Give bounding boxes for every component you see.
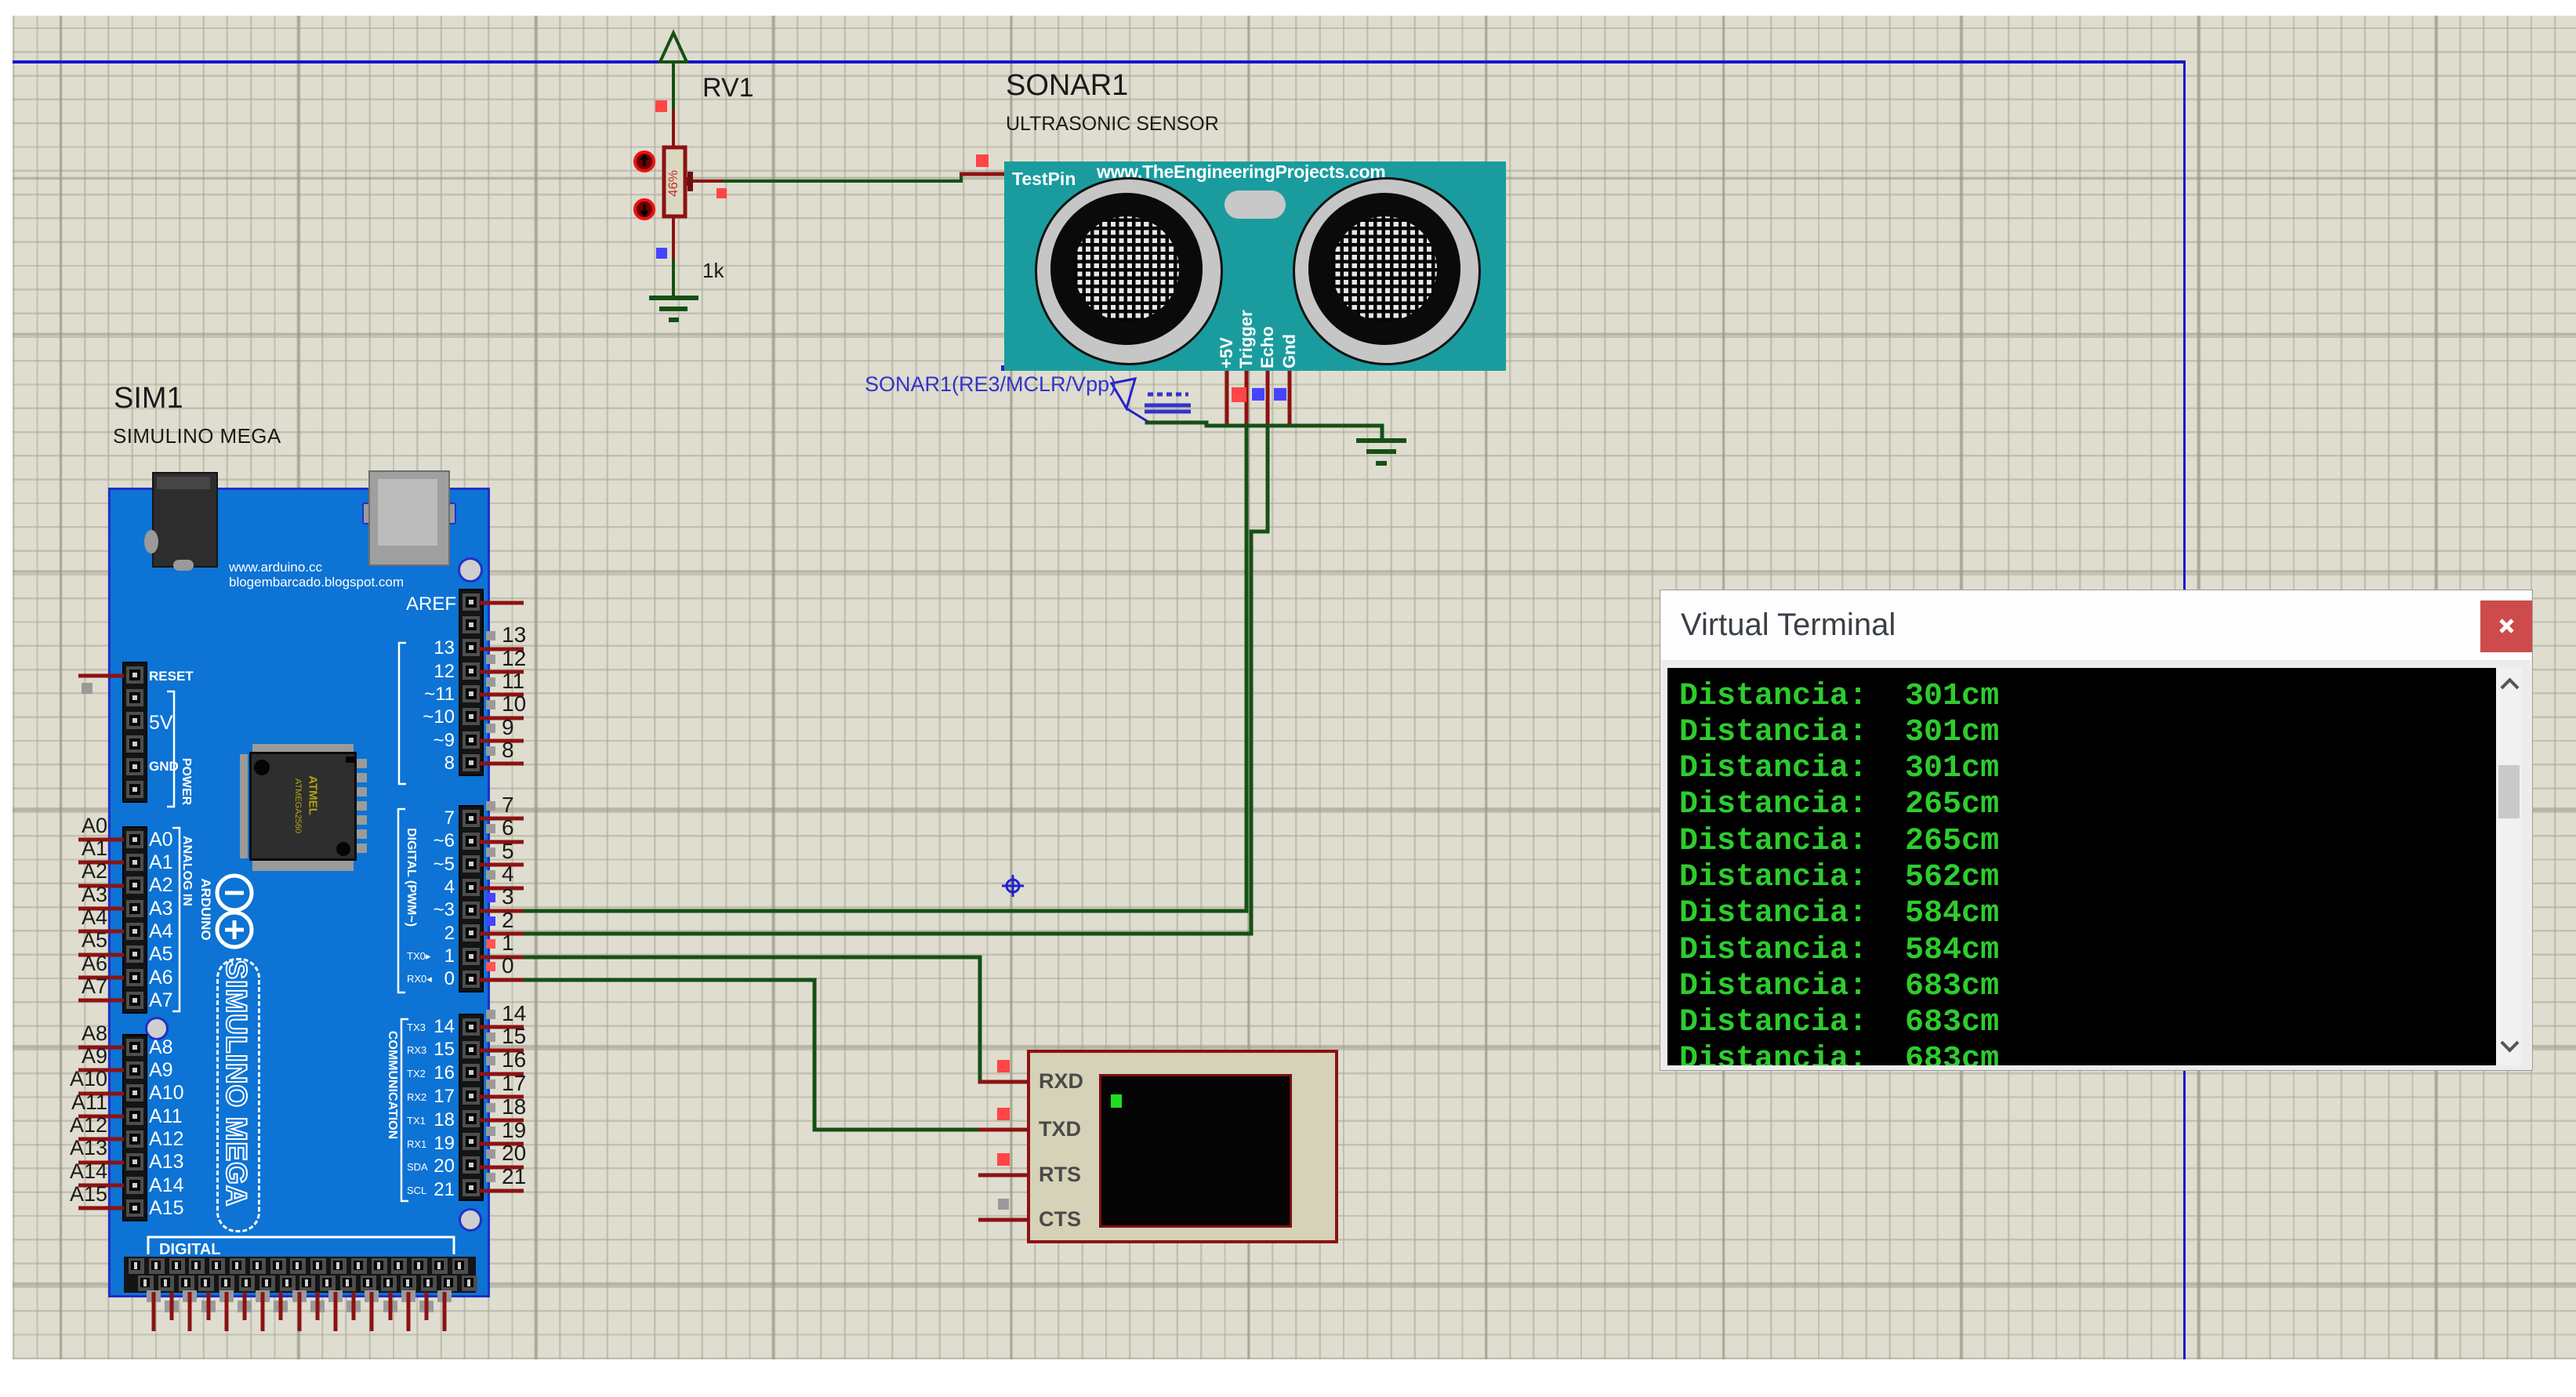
SIM1 pin label A9 xyxy=(149,1059,173,1082)
pin stub digital 6 xyxy=(479,840,524,844)
external label 12 xyxy=(502,646,526,671)
ultrasonic sensor SONAR1 body xyxy=(1004,161,1506,371)
terminal cursor block xyxy=(1111,1094,1122,1108)
SIM1 section label ARDUINO xyxy=(198,792,213,1027)
pin stub digital 11 xyxy=(479,693,524,697)
pin stub SONAR1 TestPin xyxy=(960,172,1005,176)
SIM1 pin label ~11 xyxy=(361,684,455,706)
wire: +5V/Gnd rail to ground (node) xyxy=(1147,420,1382,439)
net square for pin 2 xyxy=(486,916,495,926)
SONAR1 right transducer xyxy=(1293,177,1481,365)
external label 9 xyxy=(502,715,514,740)
SIM1 pin label A4 xyxy=(149,920,173,943)
SIM1 header AREF/13-8 xyxy=(459,589,484,776)
RV1 reference label xyxy=(702,73,754,103)
pin stub digital 18 xyxy=(479,1119,524,1123)
pin stub digital 19 xyxy=(479,1142,524,1146)
pin stub SONAR1 Gnd xyxy=(1288,370,1292,426)
external label A12 xyxy=(47,1113,107,1138)
terminal pin label RXD xyxy=(1039,1069,1083,1094)
SIM1 pin label 12 xyxy=(361,661,455,683)
SIM1 pin label ~10 xyxy=(361,706,455,728)
SIM1 pin label 4 xyxy=(361,876,455,898)
pin stub digital 13 xyxy=(479,648,524,651)
SIM1 header A8-A15 xyxy=(122,1034,147,1221)
pin stub A0 xyxy=(78,838,124,842)
probe dashes xyxy=(1145,394,1191,412)
external label 8 xyxy=(502,738,514,763)
external label 7 xyxy=(502,793,514,818)
net square for pin 18 xyxy=(486,1103,495,1112)
SIM1 silk text arduino.cc xyxy=(229,560,322,575)
SIM1 pin label TX1 18 xyxy=(407,1115,426,1127)
net square for pin 15 xyxy=(486,1032,495,1042)
SIM1 RESET label xyxy=(149,669,194,684)
SONAR1 reference label xyxy=(1006,69,1128,103)
SIM1 section label ANALOG IN xyxy=(180,753,194,989)
pin stub digital 21 xyxy=(479,1189,524,1193)
pin stub A8 xyxy=(78,1046,124,1050)
close button xyxy=(2480,601,2532,652)
pin stub A15 xyxy=(78,1206,124,1210)
SIM1 pin label RX3 15 xyxy=(407,1044,426,1056)
external label 20 xyxy=(502,1141,526,1166)
sheet border right xyxy=(2183,60,2186,1359)
net square for pin 12 xyxy=(486,655,495,664)
Virtual Terminal popup window xyxy=(1660,590,2533,1071)
external label 3 xyxy=(502,884,514,909)
SIM1 pin label ~9 xyxy=(361,730,455,752)
SIM1 reference label xyxy=(114,382,183,415)
SIM1 pin label TX0 1 xyxy=(407,950,430,963)
pin stub terminal TXD xyxy=(978,1128,1029,1132)
external label 2 xyxy=(502,908,514,933)
net square for pin 3 xyxy=(486,893,495,902)
SIM1 pin label A10 xyxy=(149,1082,183,1105)
wire: SONAR1 Trigger to SIM1 pin 3 xyxy=(524,427,1246,911)
SIM1 section label POWER xyxy=(179,664,193,899)
wiper arrow of RV1 xyxy=(688,172,693,191)
wire: RV1 bottom to ground xyxy=(672,259,675,296)
net square for pin 6 xyxy=(486,824,495,833)
external label 13 xyxy=(502,622,526,648)
SIM1 mounting hole top right xyxy=(458,557,483,582)
terminal pin label TXD xyxy=(1039,1117,1081,1141)
pin stub A2 xyxy=(78,884,124,888)
pin stub A6 xyxy=(78,976,124,980)
microcontroller board SIM1 (SIMULINO MEGA) xyxy=(108,488,490,1297)
net square for pin 0 xyxy=(486,962,495,971)
net square for pin 4 xyxy=(486,870,495,880)
pin stub digital 15 xyxy=(479,1049,524,1053)
external label A11 xyxy=(47,1090,107,1115)
SIM1 pin label A15 xyxy=(149,1197,183,1220)
SIM1 pin label SDA 20 xyxy=(407,1161,428,1173)
external label A14 xyxy=(47,1159,107,1184)
pin stub digital 12 xyxy=(479,670,524,674)
net square for pin 1 xyxy=(486,939,495,949)
pin stub A1 xyxy=(78,861,124,865)
SONAR1 TestPin label xyxy=(1012,169,1076,190)
net square for pin 17 xyxy=(486,1079,495,1089)
external label 15 xyxy=(502,1024,526,1049)
pin stub digital 7 xyxy=(479,817,524,821)
pin stub digital 17 xyxy=(479,1095,524,1099)
sheet border top xyxy=(13,60,2186,63)
net label SONAR1(RE3/MCLR/Vpp) xyxy=(865,372,1116,397)
pin stub RV1 pin3 (bottom) xyxy=(672,218,675,259)
SIM1 mounting hole bottom right xyxy=(459,1208,482,1232)
logic state square Gnd xyxy=(1274,388,1286,401)
SIM1 pin label A3 xyxy=(149,898,173,920)
SONAR1 pin label +5V xyxy=(1217,337,1236,368)
pin stub RESET xyxy=(78,674,124,678)
logic state square RV1 wiper xyxy=(717,188,727,198)
pin stub digital 10 xyxy=(479,717,524,720)
pin stub digital 4 xyxy=(479,887,524,891)
pin stub A7 xyxy=(78,999,124,1003)
pin stub A14 xyxy=(78,1184,124,1188)
external label A6 xyxy=(47,952,107,976)
pin stub digital 14 xyxy=(479,1025,524,1029)
SONAR1 value label xyxy=(1006,113,1219,136)
SIM1 pin label TX3 14 xyxy=(407,1021,426,1033)
pin stub A13 xyxy=(78,1161,124,1165)
virtual terminal schematic part body xyxy=(1027,1050,1338,1243)
SIM1 pin label TX2 16 xyxy=(407,1068,426,1079)
wire: SIM1 pin 0 (RXD) to terminal TXD xyxy=(524,980,1027,1130)
pin stub digital 16 xyxy=(479,1072,524,1076)
external label A1 xyxy=(47,836,107,861)
SIM1 section label COMMUNICATION xyxy=(385,967,399,1203)
SIM1 pin label 8 xyxy=(361,753,455,775)
pin stub digital 2 xyxy=(479,932,524,936)
external label 6 xyxy=(502,815,514,840)
pin stub digital 5 xyxy=(479,863,524,867)
origin marker (crosshair) xyxy=(1002,875,1024,897)
SIM1 pin label A7 xyxy=(149,989,173,1012)
SIM1 pin label A5 xyxy=(149,943,173,966)
SIM1 SIMULINO MEGA silk xyxy=(216,958,260,1232)
external label A10 xyxy=(47,1067,107,1091)
SIM1 pin label 2 xyxy=(361,923,455,945)
SIM1 AREF label xyxy=(386,593,456,615)
SONAR1 oscillator capsule xyxy=(1225,190,1286,219)
external label 17 xyxy=(502,1071,526,1096)
SIM1 pin label A11 xyxy=(149,1105,183,1128)
logic state square RV1 pin1 xyxy=(655,100,667,112)
external label 5 xyxy=(502,839,514,864)
external label A5 xyxy=(47,928,107,952)
external label A2 xyxy=(47,859,107,884)
pin stub digital 20 xyxy=(479,1166,524,1170)
SIM1 pin label RX2 17 xyxy=(407,1091,426,1103)
external label 18 xyxy=(502,1094,526,1119)
SIM1 pin label RX0 0 xyxy=(407,973,432,985)
logic state square TestPin xyxy=(976,154,989,167)
RV1 value label 1k xyxy=(702,259,724,283)
net square for pin 16 xyxy=(486,1056,495,1065)
pin stub A10 xyxy=(78,1092,124,1096)
SONAR1 pin label Trigger xyxy=(1237,310,1256,368)
SIM1 pin label ~5 xyxy=(361,854,455,876)
SIM1 pin label A0 xyxy=(149,829,173,851)
logic state square Trigger xyxy=(1232,387,1246,402)
SIM1 header POWER xyxy=(122,662,147,803)
external label A9 xyxy=(47,1044,107,1069)
SIM1 pin label A2 xyxy=(149,874,173,897)
pin stub terminal CTS xyxy=(978,1218,1029,1222)
SIM1 pin label A1 xyxy=(149,851,173,874)
pin stub A4 xyxy=(78,930,124,934)
net square for pin 21 xyxy=(486,1173,495,1182)
net square RESET xyxy=(82,683,93,694)
net square for pin 13 xyxy=(486,631,495,640)
terminal pin label CTS xyxy=(1039,1207,1081,1232)
SIM1 mounting hole mid left xyxy=(145,1017,169,1040)
SIM1 pin label A12 xyxy=(149,1128,183,1151)
external label 10 xyxy=(502,691,526,717)
SONAR1 pin label Gnd xyxy=(1280,334,1299,368)
RV1 decrement arrow button xyxy=(635,200,654,219)
net square for pin 7 xyxy=(486,801,495,811)
pin stub AREF xyxy=(479,601,524,605)
SIM1 pin label A14 xyxy=(149,1174,183,1197)
external label 11 xyxy=(502,669,524,694)
pin stub RV1 wiper xyxy=(693,180,723,183)
external label 1 xyxy=(502,931,514,956)
logic square terminal TXD xyxy=(997,1108,1010,1120)
external label A3 xyxy=(47,883,107,907)
pin stub digital 3 xyxy=(479,909,524,913)
net square for pin 9 xyxy=(486,724,495,733)
net square for pin 10 xyxy=(486,700,495,709)
external label 4 xyxy=(502,862,514,887)
pin stub RV1 pin1 xyxy=(672,109,675,147)
SIM1 USB connector xyxy=(362,503,375,524)
pin stub A5 xyxy=(78,953,124,957)
voltage probe SONAR1(RE3/MCLR/Vpp) xyxy=(1112,379,1147,421)
pin stub SONAR1 +5V xyxy=(1225,370,1229,426)
pin stub A9 xyxy=(78,1069,124,1072)
SIM1 section label DIGITAL (PWM~) xyxy=(404,760,418,995)
terminal pin label RTS xyxy=(1039,1163,1081,1187)
pin stub terminal RXD xyxy=(978,1080,1029,1084)
SIM1 pin label SCL 21 xyxy=(407,1185,426,1196)
SONAR1 website label xyxy=(1097,161,1385,183)
window title xyxy=(1681,608,1896,643)
external label A7 xyxy=(47,974,107,999)
SIM1 pin label A8 xyxy=(149,1036,173,1059)
pin stub digital 1 xyxy=(479,956,524,960)
logic square terminal RTS xyxy=(997,1153,1010,1166)
pin stub SONAR1 Echo xyxy=(1266,370,1270,427)
external label 21 xyxy=(502,1164,526,1189)
logic state square RV1 pin3 xyxy=(656,248,667,259)
potentiometer RV1 body xyxy=(664,147,685,216)
external label A13 xyxy=(47,1136,107,1160)
external label A15 xyxy=(47,1182,107,1206)
SIM1 pin label 7 xyxy=(361,807,455,829)
blue tape mark under SONAR1 xyxy=(1001,365,1054,371)
pin stub digital 0 xyxy=(479,978,524,982)
wire: SIM1 pin 1 (TXD) to terminal RXD xyxy=(524,957,1027,1082)
SIM1 DC power jack xyxy=(152,472,218,568)
SIM1 pin label 13 xyxy=(361,637,455,659)
pin stub terminal RTS xyxy=(978,1174,1029,1177)
scrollbar xyxy=(2496,668,2522,1065)
logic square terminal CTS xyxy=(998,1199,1009,1210)
pin stub A3 xyxy=(78,907,124,911)
net square for pin 20 xyxy=(486,1149,495,1159)
wire: power arrow to RV1 top xyxy=(672,62,675,109)
external label 16 xyxy=(502,1047,526,1072)
SONAR1 left transducer xyxy=(1035,177,1223,365)
external label 19 xyxy=(502,1118,526,1143)
SIM1 bottom digital header xyxy=(124,1257,476,1293)
virtual terminal screen xyxy=(1099,1074,1292,1228)
SIM1 header A0-A7 xyxy=(122,826,147,1014)
pin stub digital 8 xyxy=(479,762,524,766)
external label A0 xyxy=(47,814,107,838)
external label A4 xyxy=(47,905,107,930)
power symbol (up arrow) feeding RV1 xyxy=(660,33,687,62)
RV1 increment arrow button xyxy=(635,152,654,171)
net square for pin 14 xyxy=(486,1010,495,1019)
pin stub digital 9 xyxy=(479,739,524,743)
SONAR1 pin label Echo xyxy=(1258,326,1277,368)
SIM1 pin label A6 xyxy=(149,967,173,989)
net square for pin 8 xyxy=(486,746,495,756)
external label 0 xyxy=(502,953,514,978)
terminal text area xyxy=(1667,668,2496,1065)
net square for pin 11 xyxy=(486,677,495,687)
SIM1 header 7-0 xyxy=(459,805,484,992)
SIM1 GND label xyxy=(149,759,179,775)
ground symbol below RV1 xyxy=(649,298,698,320)
pin stub A11 xyxy=(78,1115,124,1119)
ground symbol near SONAR1 xyxy=(1356,441,1406,463)
microcontroller chip ATMEL ATMEGA2560 xyxy=(252,744,354,755)
pin stub SONAR1 Trigger xyxy=(1245,370,1249,427)
SIM1 5V label xyxy=(149,712,173,735)
external label 14 xyxy=(502,1001,526,1026)
logic square terminal RXD xyxy=(997,1060,1010,1072)
SIM1 pin label RX1 19 xyxy=(407,1138,426,1150)
pin stub A12 xyxy=(78,1138,124,1141)
SIM1 pin label ~3 xyxy=(361,899,455,921)
external label A8 xyxy=(47,1021,107,1046)
SIM1 header 14-21 xyxy=(459,1014,484,1201)
SIM1 pin label A13 xyxy=(149,1151,183,1174)
logic state square Echo xyxy=(1252,388,1264,401)
wire: SONAR1 Echo to SIM1 pin 2 xyxy=(524,427,1268,934)
SIM1 value label xyxy=(113,424,281,448)
wire: RV1 wiper to SONAR1 TestPin xyxy=(723,176,961,181)
net square for pin 19 xyxy=(486,1127,495,1136)
net square for pin 5 xyxy=(486,847,495,857)
SIM1 pin label ~6 xyxy=(361,830,455,852)
